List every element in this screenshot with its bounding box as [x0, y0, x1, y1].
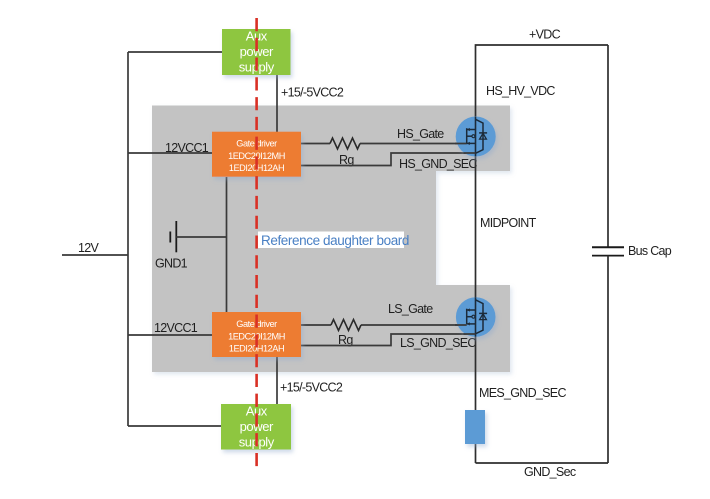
wire 12VCC1 (HS driver): [128, 152, 212, 154]
wire 12VCC1 (LS driver): [128, 334, 212, 336]
wire +15/-5VCC2 bottom (LS driver to aux bottom): [276, 357, 278, 404]
wire HS_Gate with resistor Rg (HS): [301, 143, 467, 145]
capacitor Bus Cap: [592, 246, 624, 248]
svg-text:HS_GND_SEC: HS_GND_SEC: [399, 157, 477, 171]
svg-text:GND1: GND1: [155, 256, 188, 270]
svg-text:HS_HV_VDC: HS_HV_VDC: [486, 84, 555, 98]
shunt connector MES_GND_SEC (blue rectangle): [465, 410, 485, 444]
svg-text:Bus Cap: Bus Cap: [628, 244, 672, 258]
svg-text:+VDC: +VDC: [529, 28, 561, 42]
red isolation boundary line: [255, 18, 258, 466]
wire 12V input stub: [62, 254, 128, 256]
wire LS_Gate with resistor Rg (LS): [301, 324, 467, 326]
wire GND_Sec bottom rail: [476, 462, 609, 464]
wire +15/-5VCC2 top (aux top to HS driver): [276, 75, 278, 132]
svg-text:12VCC1: 12VCC1: [165, 141, 209, 155]
ground GND1 symbol: [175, 221, 177, 252]
wire LS source to GND_Sec rail: [475, 300, 477, 463]
aux power supply (top): [222, 29, 291, 76]
daughter board region (gray PCB area): [152, 106, 510, 373]
svg-text:LS_Gate: LS_Gate: [388, 302, 433, 316]
svg-text:Reference daughter board: Reference daughter board: [261, 233, 409, 248]
transistor Q1 HS MOSFET: [455, 117, 496, 157]
wire LS_GND_SEC: [301, 334, 476, 346]
wire +VDC top rail: [476, 45, 609, 118]
resistor Rg (HS): [330, 138, 360, 149]
svg-text:HS_Gate: HS_Gate: [397, 127, 444, 141]
wire MIDPOINT (HS source to LS drain): [475, 118, 477, 300]
aux power supply (bottom): [221, 404, 291, 450]
wire GND1 rail between gate drivers: [226, 177, 228, 312]
wire HS_GND_SEC: [301, 153, 476, 166]
svg-text:LS_GND_SEC: LS_GND_SEC: [400, 336, 476, 350]
wire left 12V rail: [127, 52, 129, 426]
svg-text:MES_GND_SEC: MES_GND_SEC: [479, 386, 566, 400]
transistor Q2 LS MOSFET: [455, 297, 496, 337]
svg-text:12VCC1: 12VCC1: [154, 321, 198, 335]
svg-text:12V: 12V: [78, 241, 100, 255]
gate driver U2 1EDC20I12MH / 1EDI20H12AH (LS): [212, 312, 301, 357]
wire +VDC right rail to bus cap: [607, 45, 609, 247]
svg-text:MIDPOINT: MIDPOINT: [480, 216, 537, 230]
wire to aux power supply bottom: [128, 425, 221, 427]
gate driver U1 1EDC20I12MH / 1EDI20H12AH (HS): [212, 132, 301, 177]
wire bus cap to GND_Sec rail: [607, 256, 609, 463]
wire to aux power supply top: [128, 51, 222, 53]
svg-text:GND_Sec: GND_Sec: [524, 465, 576, 479]
svg-text:+15/-5VCC2: +15/-5VCC2: [281, 85, 344, 99]
resistor Rg (LS): [331, 320, 361, 331]
svg-text:+15/-5VCC2: +15/-5VCC2: [280, 381, 343, 395]
node label Reference daughter board: [258, 232, 409, 249]
